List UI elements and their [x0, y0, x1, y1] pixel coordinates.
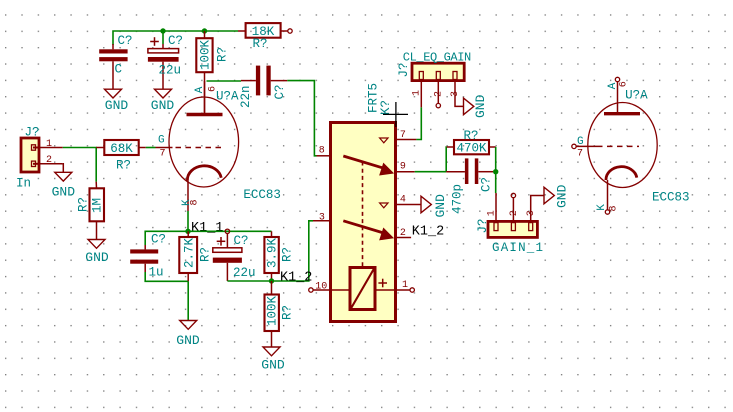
svg-text:J?: J?: [25, 126, 40, 140]
svg-text:9: 9: [400, 162, 406, 173]
svg-text:8: 8: [319, 145, 325, 156]
ground below C1: [105, 89, 129, 113]
wire relay pin 9 to RC network: [415, 171, 447, 173]
relay pin 2: [396, 237, 412, 239]
junction K1_2 node: [269, 278, 274, 283]
svg-text:1M: 1M: [91, 198, 105, 213]
svg-text:3: 3: [450, 91, 461, 97]
svg-text:A: A: [607, 82, 619, 89]
svg-text:3: 3: [319, 212, 325, 223]
relay pin 9: [396, 171, 415, 173]
svg-text:K?: K?: [379, 100, 393, 115]
svg-text:GND: GND: [261, 358, 285, 373]
wire relay pin 7 to J2 pin 1: [416, 107, 421, 139]
svg-text:R?: R?: [252, 37, 267, 51]
open pin grid of U2A: [572, 144, 576, 148]
pin 2 of J1: [39, 163, 63, 165]
svg-text:J?: J?: [397, 62, 411, 77]
wire R2 to grid pin of U1A: [146, 147, 156, 149]
svg-text:J?: J?: [476, 218, 490, 233]
wire C5 bottom to ground rail: [145, 272, 188, 281]
capacitor C1 value C: [99, 34, 132, 89]
svg-text:7: 7: [160, 149, 166, 160]
wire anode node to C4: [207, 80, 242, 82]
svg-text:C?: C?: [168, 34, 183, 48]
resistor R6 3.9K vertical: [264, 231, 294, 281]
svg-text:CL_EQ_GAIN: CL_EQ_GAIN: [403, 51, 471, 65]
capacitor C2 22u polarized: [148, 34, 183, 89]
svg-text:R?: R?: [116, 159, 131, 173]
svg-text:10: 10: [315, 282, 327, 293]
svg-text:GND: GND: [473, 94, 488, 118]
svg-text:C?: C?: [118, 34, 133, 48]
svg-text:22n: 22n: [239, 85, 253, 108]
resistor R4 1M vertical: [76, 182, 104, 240]
svg-text:8: 8: [190, 199, 201, 205]
pin 1 of J3: [486, 193, 497, 221]
svg-text:ECC83: ECC83: [652, 190, 690, 204]
svg-text:2: 2: [509, 210, 520, 216]
svg-text:GAIN_1: GAIN_1: [492, 241, 544, 255]
relay K1 body: [331, 123, 396, 322]
resistor R8 470K horizontal: [447, 129, 496, 156]
triode U2A tube body: [576, 82, 657, 210]
svg-text:U?A: U?A: [625, 89, 648, 103]
svg-text:7: 7: [577, 148, 583, 159]
svg-text:7: 7: [400, 130, 406, 141]
svg-text:R?: R?: [199, 247, 213, 262]
svg-text:A: A: [194, 86, 206, 93]
svg-text:C?: C?: [273, 84, 287, 99]
junction at C7 right: [493, 169, 498, 174]
pin 1 of J2: [412, 81, 423, 108]
connector J2 CL_EQ_GAIN: [397, 51, 471, 81]
svg-text:100K: 100K: [199, 39, 213, 70]
relay pin 7: [396, 139, 417, 141]
svg-text:1: 1: [46, 139, 52, 150]
svg-text:ECC83: ECC83: [243, 188, 281, 202]
relay pin 3: [313, 220, 331, 222]
anchor crosshair at K1: [383, 102, 408, 127]
pin 3 of J3: [526, 196, 544, 222]
svg-text:2.7K: 2.7K: [183, 237, 197, 268]
wire right side of RC network: [495, 147, 497, 193]
svg-text:GND: GND: [555, 184, 570, 208]
svg-text:C?: C?: [234, 234, 249, 248]
ground at relay pin 4: [421, 194, 448, 218]
relay pin 10: [309, 282, 350, 293]
wire cathode of U1A to K1_1 node: [187, 211, 189, 231]
connector J1 In: [16, 126, 40, 191]
wire top supply rail: [113, 31, 238, 45]
svg-text:G: G: [158, 135, 165, 147]
svg-text:R?: R?: [281, 305, 295, 320]
svg-text:K1_1: K1_1: [191, 221, 223, 236]
svg-text:GND: GND: [151, 98, 175, 113]
svg-text:22u: 22u: [233, 266, 256, 280]
svg-text:100K: 100K: [266, 295, 280, 326]
svg-text:GND: GND: [176, 333, 200, 348]
resistor R1 100K vertical: [196, 31, 229, 114]
svg-text:68K: 68K: [110, 142, 133, 156]
capacitor C6 22u cathode bypass: [213, 229, 256, 281]
relay switch armature 1: [343, 156, 393, 175]
svg-text:GND: GND: [433, 194, 448, 218]
wire C4 to relay pin 8: [287, 81, 316, 156]
svg-text:C?: C?: [480, 177, 494, 192]
svg-text:8: 8: [608, 205, 619, 211]
resistor R3 18K horizontal: [238, 23, 288, 51]
wire J1 pin1 to R2 and R4 node: [63, 148, 96, 182]
svg-text:In: In: [16, 177, 31, 191]
open pin anode of U2A: [615, 77, 619, 81]
resistor R7 100K vertical: [265, 281, 295, 347]
ground below R5: [176, 321, 200, 349]
pin 2 of J3: [509, 193, 520, 221]
triode U1A tube body: [156, 81, 239, 211]
svg-text:4: 4: [400, 194, 406, 205]
svg-text:GND: GND: [52, 185, 76, 200]
svg-text:3: 3: [526, 210, 537, 216]
svg-text:R?: R?: [281, 247, 295, 262]
svg-text:GND: GND: [85, 250, 109, 265]
svg-text:C?: C?: [151, 233, 166, 247]
wire to ground below R5: [187, 281, 189, 320]
open pin end right of R3: [288, 29, 292, 33]
svg-text:K1_2: K1_2: [280, 270, 312, 285]
junction on rail at C2: [160, 28, 165, 33]
svg-text:6: 6: [618, 81, 629, 87]
relay pin 4: [396, 204, 422, 206]
svg-text:R?: R?: [463, 129, 478, 143]
ground at J2 pin 3: [464, 94, 489, 118]
wire cathode rail: [145, 231, 271, 245]
svg-text:470K: 470K: [456, 142, 487, 156]
relay pin 8: [317, 155, 331, 157]
svg-text:C: C: [115, 63, 123, 77]
svg-text:U?A: U?A: [216, 90, 239, 104]
ground at J3 pin 3: [544, 184, 570, 208]
svg-text:1: 1: [412, 90, 423, 96]
svg-text:K: K: [596, 204, 608, 211]
capacitor C7 470p: [446, 158, 493, 214]
wire K1_2 ground-side rail: [227, 221, 313, 281]
svg-text:G: G: [577, 136, 584, 148]
relay contact marker at pin 4: [380, 203, 388, 208]
svg-text:3.9K: 3.9K: [266, 237, 280, 268]
capacitor C4 22n: [239, 66, 287, 108]
relay mechanical link dashed: [362, 162, 364, 268]
svg-text:1u: 1u: [149, 266, 164, 280]
ground below R4: [85, 240, 109, 265]
junction K1_1 node: [185, 229, 190, 234]
relay switch armature 2: [343, 221, 393, 240]
open pin cathode of U2A: [605, 210, 609, 214]
pin 3 of J2: [450, 81, 464, 107]
relay pin 1: [375, 279, 414, 292]
relay coil: [350, 268, 375, 310]
svg-text:K1_2: K1_2: [412, 224, 444, 239]
svg-text:2: 2: [400, 228, 406, 239]
pin 1 of J1: [39, 147, 63, 149]
svg-text:470p: 470p: [451, 184, 465, 214]
svg-text:R?: R?: [76, 197, 90, 212]
svg-text:1: 1: [486, 210, 497, 216]
svg-text:2: 2: [434, 91, 445, 97]
ground below C2: [151, 89, 175, 113]
svg-text:GND: GND: [105, 98, 129, 113]
svg-text:R?: R?: [216, 47, 230, 62]
resistor R5 2.7K vertical: [179, 231, 212, 281]
connector J3 GAIN_1: [476, 218, 544, 255]
pin 2 of J2: [434, 81, 445, 108]
svg-text:2: 2: [46, 155, 52, 166]
ground at J1 pin 2: [52, 164, 76, 200]
relay contact marker at pin 7: [380, 138, 388, 143]
junction on rail at R1: [202, 28, 207, 33]
resistor R2 68K horizontal: [96, 140, 146, 173]
capacitor C5 1u: [130, 233, 166, 280]
svg-text:22u: 22u: [159, 64, 182, 78]
svg-text:1: 1: [402, 280, 408, 291]
ground below R7: [261, 347, 285, 373]
